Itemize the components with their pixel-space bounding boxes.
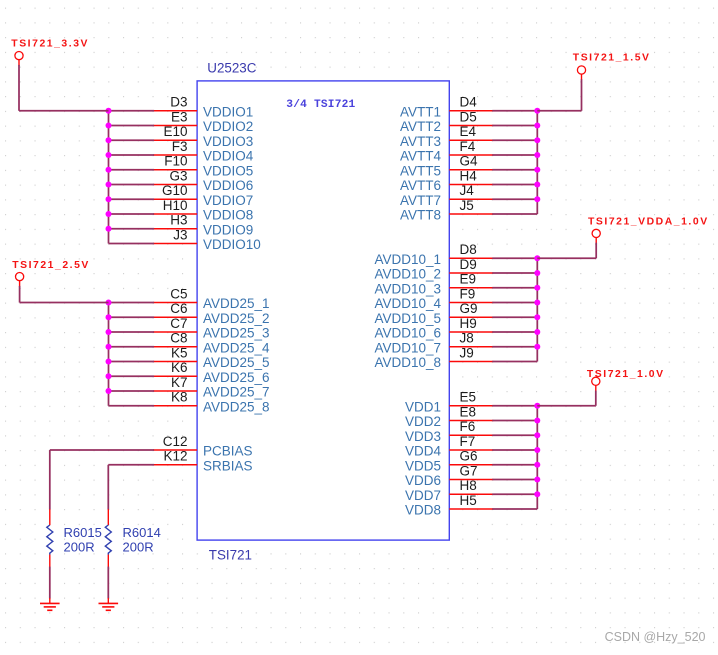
svg-text:AVTT7: AVTT7	[400, 193, 441, 208]
wire bus to pin AVDD25_8	[109, 405, 155, 407]
svg-text:AVTT4: AVTT4	[400, 149, 441, 164]
pin name AVDD10_5	[374, 311, 441, 326]
svg-text:VDDIO2: VDDIO2	[203, 119, 253, 134]
pin name AVDD25_6	[203, 370, 270, 385]
pin name VDDIO9	[203, 222, 253, 237]
wire bus to pin VDDIO6	[109, 184, 155, 186]
power symbol TSI721_1.5V circle	[577, 66, 585, 80]
svg-text:AVDD25_6: AVDD25_6	[203, 370, 270, 385]
wire pin AVDD10_2 to bus	[492, 272, 537, 274]
pin D4 (AVTT1) stub	[449, 110, 493, 112]
pin number K5	[171, 345, 188, 360]
pin number D9	[460, 257, 477, 272]
pin number J3	[173, 227, 187, 242]
svg-text:VDDIO7: VDDIO7	[203, 193, 253, 208]
pin number F9	[460, 286, 476, 301]
wire pin VDD5 to bus	[492, 464, 537, 466]
wire TSI721_2.5V to AVDD25 bus	[20, 286, 109, 303]
pin K5 (AVDD25_5) stub	[153, 361, 197, 363]
pin number H9	[460, 316, 477, 331]
svg-text:J5: J5	[460, 198, 474, 213]
pin E5 (VDD1) stub	[449, 405, 493, 407]
wire pin AVDD10_6 to bus	[492, 331, 537, 333]
pin number J9	[460, 345, 474, 360]
pin name VDDIO2	[203, 119, 253, 134]
junction AVDD10 row 3	[534, 285, 540, 291]
svg-text:F9: F9	[460, 286, 476, 301]
svg-text:VDD2: VDD2	[405, 414, 441, 429]
watermark CSDN @Hzy_520	[605, 630, 706, 644]
pin name AVDD25_2	[203, 311, 270, 326]
wire pin AVTT3 to bus	[492, 139, 537, 141]
junction AVTT row 6	[534, 182, 540, 188]
wire resistor to ground	[49, 567, 51, 599]
pin name AVDD10_7	[374, 340, 441, 355]
svg-text:TSI721_3.3V: TSI721_3.3V	[11, 39, 89, 50]
wire AVDD25 vertical bus	[108, 303, 110, 406]
junction AVDD25 row 5	[106, 359, 112, 365]
pin J3 (VDDIO10) stub	[153, 243, 197, 245]
pin number E4	[460, 124, 477, 139]
resistor R6015 value 200R	[64, 540, 95, 555]
pin number E8	[460, 404, 477, 419]
wire TSI721_1.0V to VDD bus	[537, 391, 596, 406]
svg-text:VDDIO5: VDDIO5	[203, 163, 253, 178]
svg-text:VDDIO4: VDDIO4	[203, 149, 254, 164]
svg-text:AVTT3: AVTT3	[400, 134, 441, 149]
svg-text:PCBIAS: PCBIAS	[203, 444, 253, 459]
pin name VDDIO1	[203, 104, 253, 119]
junction VDDIO row 8	[106, 211, 112, 217]
svg-text:F7: F7	[460, 434, 476, 449]
pin C6 (AVDD25_2) stub	[153, 316, 197, 318]
pin name AVTT7	[400, 193, 441, 208]
wire pin AVTT5 to bus	[492, 169, 537, 171]
pin name VDD8	[405, 503, 441, 518]
pin F9 (AVDD10_4) stub	[449, 302, 493, 304]
pin number H5	[460, 493, 477, 508]
pin G10 (VDDIO7) stub	[153, 198, 197, 200]
pin F3 (VDDIO4) stub	[153, 154, 197, 156]
wire pin AVTT8 to bus	[492, 213, 537, 215]
pin K12 (SRBIAS) stub	[153, 464, 197, 466]
svg-text:E5: E5	[460, 390, 477, 405]
pin name AVDD10_4	[374, 296, 441, 311]
power symbol TSI721_2.5V circle	[16, 273, 24, 287]
svg-text:E4: E4	[460, 124, 477, 139]
pin D5 (AVTT2) stub	[449, 125, 493, 127]
pin J5 (AVTT8) stub	[449, 213, 493, 215]
wire pin VDD8 to bus	[492, 508, 537, 510]
wire pin AVTT1 to bus	[492, 110, 537, 112]
pin name VDDIO4	[203, 149, 254, 164]
svg-text:VDDIO3: VDDIO3	[203, 134, 253, 149]
pin number F3	[172, 139, 188, 154]
svg-text:D5: D5	[460, 109, 477, 124]
resistor R6014 value 200R	[123, 540, 154, 555]
junction AVTT row 3	[534, 137, 540, 143]
junction VDD row 3	[534, 432, 540, 438]
junction VDDIO row 6	[106, 182, 112, 188]
junction VDDIO row 7	[106, 196, 112, 202]
refdes U2523C	[207, 61, 256, 76]
svg-text:VDDIO8: VDDIO8	[203, 208, 253, 223]
pin number F7	[460, 434, 476, 449]
wire pin VDD7 to bus	[492, 493, 537, 495]
power symbol TSI721_1.0V circle	[592, 377, 600, 391]
wire bus to pin AVDD25_2	[109, 316, 155, 318]
part label 3/4 TSI721	[286, 99, 355, 111]
svg-text:G4: G4	[460, 154, 479, 169]
svg-text:D4: D4	[460, 95, 478, 110]
pin number E10	[163, 124, 187, 139]
wire SRBIAS to R6014	[108, 465, 154, 510]
pin name AVDD10_8	[374, 355, 441, 370]
wire bus to pin VDDIO2	[109, 125, 155, 127]
svg-text:VDDIO10: VDDIO10	[203, 237, 261, 252]
pin name AVTT1	[400, 104, 441, 119]
wire pin VDD6 to bus	[492, 479, 537, 481]
wire bus to pin AVDD25_3	[109, 331, 155, 333]
svg-text:AVDD10_8: AVDD10_8	[374, 355, 441, 370]
svg-text:AVDD10_3: AVDD10_3	[374, 281, 441, 296]
pin name AVTT6	[400, 178, 441, 193]
svg-text:VDD7: VDD7	[405, 488, 441, 503]
svg-text:H5: H5	[460, 493, 477, 508]
pin C5 (AVDD25_1) stub	[153, 302, 197, 304]
pin name VDD4	[405, 444, 442, 459]
svg-text:TSI721: TSI721	[209, 547, 252, 562]
power symbol TSI721_VDDA_1.0V circle	[592, 229, 600, 243]
junction VDDIO row 2	[106, 123, 112, 129]
junction VDDIO row 3	[106, 137, 112, 143]
junction VDDIO row 4	[106, 152, 112, 158]
svg-text:AVDD25_1: AVDD25_1	[203, 296, 270, 311]
wire bus to pin VDDIO7	[109, 198, 155, 200]
part name TSI721	[209, 547, 252, 562]
svg-text:G7: G7	[460, 463, 478, 478]
svg-text:AVDD25_3: AVDD25_3	[203, 326, 270, 341]
pin number G7	[460, 463, 478, 478]
pin name VDD6	[405, 473, 441, 488]
resistor R6014 refdes label	[123, 525, 161, 540]
svg-text:200R: 200R	[64, 540, 95, 555]
pin name VDDIO5	[203, 163, 253, 178]
pin G6 (VDD5) stub	[449, 464, 493, 466]
svg-text:C7: C7	[170, 316, 187, 331]
junction VDD row 2	[534, 418, 540, 424]
svg-text:C6: C6	[170, 301, 187, 316]
pin H10 (VDDIO8) stub	[153, 213, 197, 215]
pin name AVDD25_3	[203, 326, 270, 341]
pin name AVDD10_2	[374, 267, 441, 282]
pin E10 (VDDIO3) stub	[153, 139, 197, 141]
svg-text:AVDD25_7: AVDD25_7	[203, 385, 270, 400]
svg-text:AVTT1: AVTT1	[400, 104, 441, 119]
pin number K12	[163, 449, 187, 464]
wire bus to pin VDDIO8	[109, 213, 155, 215]
resistor R6015	[47, 509, 53, 567]
junction AVDD25 row 6	[106, 373, 112, 379]
pin number C7	[170, 316, 187, 331]
svg-text:G3: G3	[169, 168, 187, 183]
wire bus to pin AVDD25_7	[109, 390, 155, 392]
svg-text:E8: E8	[460, 404, 477, 419]
junction VDDIO row 5	[106, 167, 112, 173]
junction AVDD25 row 4	[106, 344, 112, 350]
svg-text:K5: K5	[171, 345, 188, 360]
wire pin AVDD10_4 to bus	[492, 302, 537, 304]
wire pin AVDD10_1 to bus	[492, 257, 537, 259]
svg-text:K12: K12	[163, 449, 187, 464]
svg-text:TSI721_2.5V: TSI721_2.5V	[12, 260, 90, 271]
power net label TSI721_2.5V	[12, 260, 90, 271]
pin number G6	[460, 449, 478, 464]
junction AVTT row 1	[534, 108, 540, 114]
pin F4 (AVTT4) stub	[449, 154, 493, 156]
svg-text:J3: J3	[173, 227, 187, 242]
pin number D5	[460, 109, 477, 124]
pin K6 (AVDD25_6) stub	[153, 375, 197, 377]
pin E3 (VDDIO2) stub	[153, 125, 197, 127]
pin number K7	[171, 375, 188, 390]
svg-text:VDD4: VDD4	[405, 444, 442, 459]
pin F7 (VDD4) stub	[449, 449, 493, 451]
wire TSI721_VDDA_1.0V to AVDD10 bus	[537, 243, 596, 259]
pin G7 (VDD6) stub	[449, 479, 493, 481]
wire PCBIAS to R6015	[50, 450, 154, 510]
pin number C8	[170, 331, 187, 346]
pin K8 (AVDD25_8) stub	[153, 405, 197, 407]
wire AVDD10 vertical bus	[536, 258, 538, 361]
svg-text:AVDD25_5: AVDD25_5	[203, 355, 270, 370]
svg-text:VDDIO9: VDDIO9	[203, 222, 253, 237]
svg-text:CSDN @Hzy_520: CSDN @Hzy_520	[605, 630, 706, 644]
wire bus to pin VDDIO10	[109, 243, 155, 245]
junction AVTT row 7	[534, 196, 540, 202]
svg-text:AVDD25_8: AVDD25_8	[203, 399, 270, 414]
pin name PCBIAS	[203, 444, 253, 459]
junction VDD row 7	[534, 491, 540, 497]
junction AVDD25 row 3	[106, 329, 112, 335]
svg-text:TSI721_1.5V: TSI721_1.5V	[573, 52, 651, 63]
svg-text:VDD5: VDD5	[405, 458, 441, 473]
svg-text:E10: E10	[163, 124, 187, 139]
wire pin AVTT2 to bus	[492, 125, 537, 127]
pin C8 (AVDD25_4) stub	[153, 346, 197, 348]
resistor R6014	[105, 509, 111, 567]
pin number J8	[460, 331, 474, 346]
pin name AVDD25_1	[203, 296, 270, 311]
pin number H10	[163, 198, 188, 213]
wire pin AVTT4 to bus	[492, 154, 537, 156]
svg-text:AVDD10_6: AVDD10_6	[374, 326, 441, 341]
wire pin VDD3 to bus	[492, 434, 537, 436]
pin name VDDIO3	[203, 134, 253, 149]
pin J4 (AVTT7) stub	[449, 198, 493, 200]
power net label TSI721_1.0V	[587, 369, 665, 380]
svg-text:200R: 200R	[123, 540, 154, 555]
wire bus to pin VDDIO9	[109, 228, 155, 230]
wire pin VDD4 to bus	[492, 449, 537, 451]
svg-text:C5: C5	[170, 286, 187, 301]
svg-text:D3: D3	[170, 95, 187, 110]
svg-text:AVDD10_5: AVDD10_5	[374, 311, 441, 326]
pin name AVTT4	[400, 149, 441, 164]
wire bus to pin VDDIO1	[109, 110, 155, 112]
pin number C12	[163, 434, 188, 449]
svg-text:J9: J9	[460, 345, 474, 360]
pin number J5	[460, 198, 474, 213]
pin number D8	[460, 242, 477, 257]
svg-text:E9: E9	[460, 272, 477, 287]
power symbol TSI721_3.3V circle	[15, 52, 23, 66]
svg-text:G6: G6	[460, 449, 478, 464]
wire bus to pin VDDIO5	[109, 169, 155, 171]
wire TSI721_3.3V to VDDIO bus	[19, 65, 109, 111]
IC U2523C body rectangle	[197, 81, 449, 540]
svg-text:R6015: R6015	[64, 525, 102, 540]
svg-text:J8: J8	[460, 331, 474, 346]
pin number E3	[171, 109, 188, 124]
pin name VDD2	[405, 414, 441, 429]
svg-text:K7: K7	[171, 375, 188, 390]
pin number D4	[460, 95, 478, 110]
pin name AVDD10_3	[374, 281, 441, 296]
svg-text:R6014: R6014	[123, 525, 161, 540]
pin name AVTT8	[400, 208, 441, 223]
pin name VDDIO10	[203, 237, 261, 252]
svg-text:F4: F4	[460, 139, 476, 154]
wire pin AVDD10_7 to bus	[492, 346, 537, 348]
svg-text:C12: C12	[163, 434, 188, 449]
pin H8 (VDD7) stub	[449, 493, 493, 495]
pin H9 (AVDD10_6) stub	[449, 331, 493, 333]
svg-text:H8: H8	[460, 478, 477, 493]
pin number E9	[460, 272, 477, 287]
svg-text:H3: H3	[170, 213, 187, 228]
pin number E5	[460, 390, 477, 405]
ground	[40, 598, 60, 610]
pin name AVDD25_4	[203, 340, 270, 355]
pin number G9	[460, 301, 478, 316]
wire pin AVDD10_5 to bus	[492, 316, 537, 318]
pin F10 (VDDIO5) stub	[153, 169, 197, 171]
pin number H3	[170, 213, 187, 228]
svg-text:VDD3: VDD3	[405, 429, 441, 444]
resistor R6015 refdes label	[64, 525, 102, 540]
pin C12 (PCBIAS) stub	[153, 449, 197, 451]
pin H3 (VDDIO9) stub	[153, 228, 197, 230]
junction VDD row 4	[534, 447, 540, 453]
wire pin VDD1 to bus	[492, 405, 537, 407]
wire VDDIO vertical bus	[108, 111, 110, 244]
pin number G4	[460, 154, 479, 169]
junction AVDD25 row 7	[106, 388, 112, 394]
power net label TSI721_3.3V	[11, 39, 89, 50]
pin J9 (AVDD10_8) stub	[449, 361, 493, 363]
svg-text:D8: D8	[460, 242, 477, 257]
pin name AVTT5	[400, 163, 441, 178]
pin E4 (AVTT3) stub	[449, 139, 493, 141]
power net label TSI721_1.5V	[573, 52, 651, 63]
pin name SRBIAS	[203, 458, 253, 473]
pin number F4	[460, 139, 476, 154]
pin name AVDD25_8	[203, 399, 270, 414]
junction AVTT row 2	[534, 123, 540, 129]
wire TSI721_1.5V to AVTT bus	[537, 79, 581, 111]
svg-text:AVTT5: AVTT5	[400, 163, 441, 178]
svg-text:C8: C8	[170, 331, 187, 346]
wire pin AVDD10_3 to bus	[492, 287, 537, 289]
pin D9 (AVDD10_2) stub	[449, 272, 493, 274]
pin J8 (AVDD10_7) stub	[449, 346, 493, 348]
svg-text:H4: H4	[460, 168, 478, 183]
pin number G10	[162, 183, 188, 198]
svg-text:SRBIAS: SRBIAS	[203, 458, 253, 473]
svg-text:AVDD10_2: AVDD10_2	[374, 267, 441, 282]
junction AVTT row 5	[534, 167, 540, 173]
pin number G3	[169, 168, 187, 183]
svg-text:VDD1: VDD1	[405, 399, 441, 414]
pin name VDD1	[405, 399, 441, 414]
svg-text:G9: G9	[460, 301, 478, 316]
pin K7 (AVDD25_7) stub	[153, 390, 197, 392]
pin C7 (AVDD25_3) stub	[153, 331, 197, 333]
pin G3 (VDDIO6) stub	[153, 184, 197, 186]
pin number K8	[171, 390, 188, 405]
wire pin AVTT6 to bus	[492, 184, 537, 186]
pin number F10	[164, 154, 187, 169]
pin H4 (AVTT6) stub	[449, 184, 493, 186]
pin name AVTT3	[400, 134, 441, 149]
pin D3 (VDDIO1) stub	[153, 110, 197, 112]
svg-text:VDDIO6: VDDIO6	[203, 178, 253, 193]
junction AVDD10 row 1	[534, 255, 540, 261]
svg-text:F6: F6	[460, 419, 476, 434]
junction AVDD10 row 4	[534, 300, 540, 306]
pin F6 (VDD3) stub	[449, 434, 493, 436]
pin H5 (VDD8) stub	[449, 508, 493, 510]
junction AVTT row 4	[534, 152, 540, 158]
junction AVDD10 row 6	[534, 329, 540, 335]
svg-text:H10: H10	[163, 198, 188, 213]
junction AVDD10 row 5	[534, 314, 540, 320]
wire AVTT vertical bus	[536, 111, 538, 214]
svg-text:VDD8: VDD8	[405, 503, 441, 518]
svg-text:F10: F10	[164, 154, 187, 169]
svg-text:VDD6: VDD6	[405, 473, 441, 488]
wire bus to pin VDDIO3	[109, 139, 155, 141]
wire bus to pin AVDD25_4	[109, 346, 155, 348]
svg-text:K6: K6	[171, 360, 188, 375]
pin E9 (AVDD10_3) stub	[449, 287, 493, 289]
pin number J4	[460, 183, 475, 198]
pin name VDDIO8	[203, 208, 253, 223]
wire bus to pin AVDD25_1	[109, 302, 155, 304]
pin number K6	[171, 360, 188, 375]
junction VDD row 5	[534, 462, 540, 468]
wire bus to pin AVDD25_6	[109, 375, 155, 377]
pin number F6	[460, 419, 476, 434]
pin number D3	[170, 95, 187, 110]
pin number C6	[170, 301, 187, 316]
junction AVDD25 row 2	[106, 314, 112, 320]
power net label TSI721_VDDA_1.0V	[588, 217, 709, 228]
junction AVDD10 row 2	[534, 270, 540, 276]
svg-text:K8: K8	[171, 390, 188, 405]
svg-text:AVDD25_4: AVDD25_4	[203, 340, 270, 355]
